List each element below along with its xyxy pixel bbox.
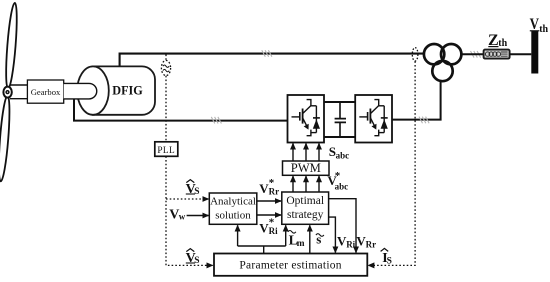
wires PWM to converter arrows xyxy=(292,143,294,160)
optimal strategy box xyxy=(282,192,329,224)
three-phase hatch right of converter xyxy=(419,117,429,124)
label VRi* xyxy=(259,217,278,236)
label VRr* xyxy=(259,177,279,196)
wire Zth to bus xyxy=(510,53,532,55)
svg-text:th: th xyxy=(539,24,548,35)
svg-text:DFIG: DFIG xyxy=(112,84,143,98)
wire VRr down xyxy=(329,199,356,253)
label Vw xyxy=(169,207,186,222)
sensor VT squiggle xyxy=(163,65,169,67)
svg-text:abc: abc xyxy=(336,150,350,160)
turbine blade top xyxy=(4,3,19,89)
dashed wire VT to PLL xyxy=(165,76,167,142)
igbt U2 xyxy=(359,100,388,136)
wire arrow param to optimal xyxy=(309,225,311,253)
turbine blade bottom xyxy=(0,95,12,181)
sensor VT dashed stub xyxy=(165,55,167,61)
wire arrow into analytical bottom xyxy=(237,225,239,246)
label Vabc* xyxy=(327,170,348,191)
svg-text:Analytical: Analytical xyxy=(210,196,256,208)
svg-text:Parameter estimation: Parameter estimation xyxy=(239,260,341,272)
wires optimal to PWM arrows xyxy=(292,176,294,192)
svg-text:S: S xyxy=(194,187,199,197)
gearbox G1 xyxy=(27,80,63,103)
svg-text:abc: abc xyxy=(335,182,349,192)
wire transformer to Zth xyxy=(462,53,484,55)
wire arrow into optimal bottom left xyxy=(285,225,287,246)
impedance Zth xyxy=(484,50,510,59)
label Vth xyxy=(530,16,549,35)
label Vs hat upper xyxy=(186,180,200,197)
PWM box xyxy=(283,161,330,175)
label VRi xyxy=(337,234,356,250)
wires analytical to optimal arrows xyxy=(257,200,281,202)
label VRr xyxy=(356,234,376,250)
svg-text:solution: solution xyxy=(215,209,251,221)
shaft gearbox to DFIG xyxy=(64,83,97,99)
converter box grid side xyxy=(355,95,392,143)
svg-text:Rr: Rr xyxy=(366,239,377,249)
svg-text:Ri: Ri xyxy=(346,239,355,249)
igbt U1 xyxy=(292,100,321,136)
svg-text:S: S xyxy=(387,256,392,266)
three-phase hatch on rotor line xyxy=(211,117,221,124)
label Lm tilde xyxy=(288,231,305,250)
converter box rotor side xyxy=(288,95,325,143)
wire stator line xyxy=(120,54,424,67)
svg-text:w: w xyxy=(179,212,186,222)
DC link wires xyxy=(324,102,355,137)
PLL box xyxy=(155,142,178,157)
wire rotor line left xyxy=(74,99,288,121)
bus bar Vth xyxy=(531,31,538,74)
hub xyxy=(3,87,11,98)
sensor CT ellipse xyxy=(412,48,418,61)
dashed wire PLL down to parameter estimation xyxy=(166,156,213,265)
DFIG cylinder body xyxy=(93,66,155,114)
label Vs hat lower xyxy=(186,249,200,266)
svg-text:Gearbox: Gearbox xyxy=(31,87,61,97)
shaft hub to gearbox xyxy=(10,85,27,99)
dashed wire Is to parameter estimation xyxy=(368,61,415,265)
svg-text:Optimal: Optimal xyxy=(286,195,324,207)
wind turbine rotor xyxy=(0,3,19,182)
label Zth xyxy=(488,32,508,49)
label s tilde xyxy=(316,231,324,246)
wire feedback riser xyxy=(238,246,286,254)
svg-text:th: th xyxy=(498,38,507,49)
analytical solution box xyxy=(209,193,256,224)
three-phase hatch right of transformer xyxy=(471,51,481,58)
svg-text:*: * xyxy=(269,177,275,189)
label Is hat xyxy=(381,248,392,266)
DFIG end cap ellipse xyxy=(77,66,109,114)
three-phase hatch on stator line xyxy=(262,50,272,57)
label Sabc xyxy=(329,144,349,160)
wire VRi down xyxy=(329,217,336,253)
DC link capacitor xyxy=(339,102,341,137)
svg-text:m: m xyxy=(297,239,305,249)
svg-text:strategy: strategy xyxy=(287,209,324,221)
wire rotor line right xyxy=(392,81,441,119)
svg-text:S: S xyxy=(194,256,199,266)
svg-text:*: * xyxy=(269,217,275,229)
sensor VT ellipse xyxy=(161,60,170,75)
wire Vw arrow xyxy=(187,215,209,217)
svg-text:PWM: PWM xyxy=(291,161,321,175)
transformer T1 xyxy=(424,44,462,81)
svg-text:*: * xyxy=(335,170,341,182)
dashed branch to analytical solution xyxy=(166,198,209,200)
svg-text:PLL: PLL xyxy=(157,146,175,156)
parameter estimation box xyxy=(214,254,367,276)
